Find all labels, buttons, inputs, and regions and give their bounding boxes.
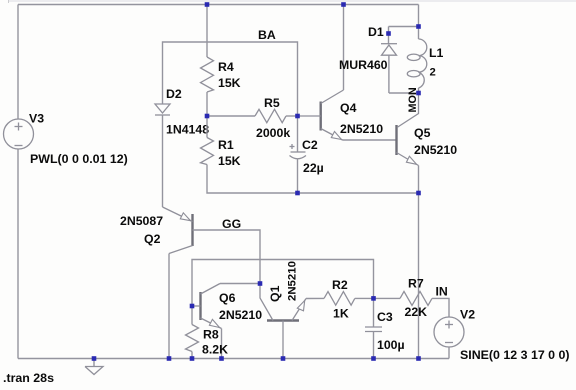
wire R5 left (207, 115, 255, 117)
wire Q1 emitter to R2 (306, 297, 324, 299)
svg-text:V2: V2 (460, 308, 475, 322)
voltage source V2 (434, 317, 464, 359)
svg-text:1K: 1K (333, 307, 349, 321)
svg-text:GG: GG (222, 217, 241, 231)
svg-text:D1: D1 (368, 25, 384, 39)
svg-text:R4: R4 (218, 60, 234, 74)
svg-text:2N5210: 2N5210 (340, 122, 383, 136)
svg-text:.tran 28s: .tran 28s (3, 371, 54, 385)
svg-text:SINE(0 12 3 17 0 0): SINE(0 12 3 17 0 0) (460, 348, 570, 362)
resistor R5 (255, 109, 286, 122)
wire R5 right (286, 115, 298, 117)
wire Q6 collector to GG node (220, 283, 260, 285)
inductor L1 (407, 39, 426, 93)
wire top rail (18, 4, 419, 6)
svg-text:22K: 22K (405, 305, 428, 319)
wire left vertical (V3 branch) (17, 5, 19, 120)
svg-text:Q2: Q2 (144, 232, 161, 246)
svg-text:2N5210: 2N5210 (287, 261, 299, 301)
svg-text:IN: IN (436, 285, 448, 299)
wire R7 right to IN corner (432, 298, 449, 317)
wire R4 bottom (206, 92, 208, 116)
node BA wire (163, 42, 298, 116)
resistor R8 (191, 306, 193, 325)
wire Q2 collector down to rail (168, 254, 170, 359)
junction Q5 emitter rail (416, 191, 421, 196)
transistor Q6 (192, 284, 222, 329)
svg-text:BA: BA (258, 28, 276, 42)
wire R4 top vertical from rail (206, 5, 208, 58)
resistor R1 (201, 138, 214, 165)
svg-text:V3: V3 (29, 112, 44, 126)
svg-text:Q5: Q5 (414, 126, 431, 140)
svg-text:R1: R1 (218, 138, 234, 152)
resistor R2 (324, 292, 355, 306)
svg-text:MUR460: MUR460 (339, 58, 388, 72)
svg-text:15K: 15K (218, 76, 241, 90)
svg-text:2N5210: 2N5210 (219, 308, 262, 322)
junction ground rail (92, 356, 97, 361)
junction C2 bottom (295, 191, 300, 196)
junction R4/R1/R5 (205, 114, 210, 119)
svg-text:Q6: Q6 (219, 291, 236, 305)
junction R8 bottom rail (190, 356, 195, 361)
resistor R7 (400, 291, 432, 305)
junction long vertical rail (416, 356, 421, 361)
svg-text:22µ: 22µ (303, 161, 324, 175)
svg-text:Q4: Q4 (340, 101, 357, 115)
wire R1 bottom to sub rail (207, 165, 419, 194)
junction R5/C2/Q4 base (295, 114, 300, 119)
svg-text:2: 2 (430, 67, 436, 79)
svg-text:2000k: 2000k (256, 126, 290, 140)
svg-text:C3: C3 (377, 310, 393, 324)
wire V3 bottom to ground rail (17, 149, 19, 359)
svg-text:L1: L1 (429, 46, 444, 60)
junction L1 top (416, 24, 421, 29)
svg-text:D2: D2 (166, 87, 182, 101)
wire Q6 emitter down to rail (221, 329, 223, 359)
svg-text:C2: C2 (302, 138, 318, 152)
junction R2/C3/R7 (371, 296, 376, 301)
wire R1 top (206, 116, 208, 138)
svg-text:Q1: Q1 (268, 285, 282, 302)
capacitor C2 (290, 116, 307, 193)
border artifact top (8, 0, 576, 2)
svg-text:R5: R5 (264, 96, 280, 110)
svg-text:100µ: 100µ (377, 338, 405, 352)
svg-text:1N4148: 1N4148 (166, 123, 209, 137)
junction GG / Q6 collector / Q1 collector (258, 281, 263, 286)
wire Q4 collector to top rail (343, 5, 345, 91)
wire R2 right (355, 297, 374, 299)
wire D1 cathode to L1 top node (389, 26, 419, 28)
transistor Q1 (260, 284, 306, 359)
junction Q2 collector rail (167, 356, 172, 361)
svg-text:R7: R7 (408, 277, 424, 291)
junction C3 bottom rail (371, 356, 376, 361)
svg-text:15K: 15K (218, 154, 241, 168)
junction Q1 base rail (281, 356, 286, 361)
transistor Q4 (298, 90, 344, 140)
junction at top rail x343 (341, 2, 346, 7)
wire feedback from R8 top node to C3 node (192, 260, 374, 307)
transistor Q5 (397, 93, 419, 193)
svg-text:2N5087: 2N5087 (120, 214, 163, 228)
svg-text:PWL(0 0 0.01 12): PWL(0 0 0.01 12) (30, 152, 128, 166)
junction Q6 emitter rail (219, 356, 224, 361)
diode D2 (155, 104, 170, 115)
junction MON node (416, 91, 421, 96)
svg-text:8.2K: 8.2K (202, 343, 228, 357)
wire long vertical MON to bottom rail (418, 193, 420, 359)
diode D1 (381, 27, 397, 94)
wire Q4 emitter to Q5 base (343, 139, 397, 141)
wire top rail drop to L1 (418, 5, 420, 40)
wire bottom ground rail (18, 358, 449, 360)
ground (85, 359, 103, 375)
wire Q2 base GG (193, 230, 261, 284)
svg-text:R8: R8 (203, 328, 219, 342)
wire D2 cathode down to Q2 emitter (162, 115, 164, 207)
junction at top rail x207 (205, 2, 210, 7)
voltage source V3 (4, 119, 34, 149)
wire MON node horizontal (389, 92, 419, 94)
wire R7 left (374, 297, 401, 299)
junction D1 cathode (386, 31, 391, 36)
svg-text:R2: R2 (332, 278, 348, 292)
capacitor C3 (365, 298, 382, 358)
svg-text:2N5210: 2N5210 (414, 143, 457, 157)
transistor Q2 (163, 207, 193, 254)
junction Q6 base / R8 top (190, 304, 195, 309)
resistor R4 (201, 57, 214, 92)
